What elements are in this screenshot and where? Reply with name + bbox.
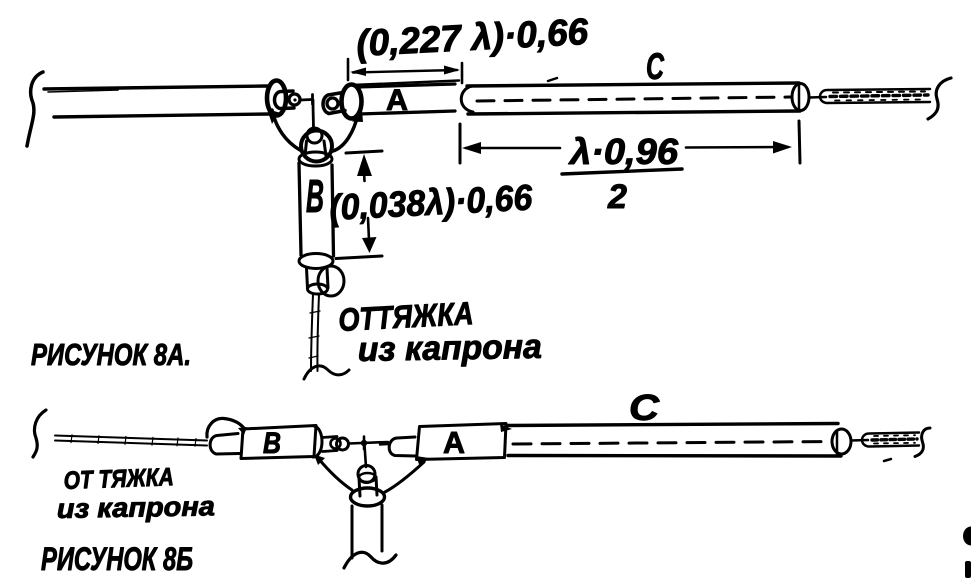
tube A bottom line (8A) [359,111,455,114]
dimension (0,227λ) left tick [347,59,350,80]
wire: left tube top line (8A) [44,86,267,89]
tube C left cap (8A) [461,86,473,112]
small cylinder after B [322,437,337,452]
insulator left thimble ring [289,94,300,105]
insulator right thimble ring [327,98,338,109]
svg-text:РИСУНОК 8А.: РИСУНОК 8А. [31,337,191,372]
svg-text:2: 2 [607,178,627,216]
dimension λ·0,96/2 left tick [459,124,462,163]
svg-text:A: A [386,84,408,117]
tube B bottom fitting [307,268,329,288]
wire: left tube overdraw dashes [48,87,230,93]
rope break hook (8A) [928,78,951,119]
mast left side (8B) [351,506,354,558]
dimension (0,038λ) bottom tick [336,256,382,259]
svg-text:λ·0,96: λ·0,96 [568,131,679,172]
right ferrule before A (8B) [380,443,389,446]
rope end whipping (8B) [862,433,919,447]
tube C bottom line (8A) [468,111,800,114]
tube C dashed centerline (8A) [477,97,790,101]
sling left dart [267,109,279,124]
tube B right cap bulge [313,426,322,457]
dimension down arrow [368,218,369,240]
svg-text:C: C [629,387,660,428]
sling right side [333,114,358,151]
eye ring (8B center-left) [337,438,349,450]
guy wire thin double line (8B) [55,436,207,446]
cut-off ink blob right edge 2 [965,561,971,578]
rope end whipping (8A) [820,89,930,103]
guy wire break squiggle (8A) [304,366,349,379]
dimension right arrow [686,146,788,149]
dimension (0,038λ) top tick [346,151,382,153]
link wire between eyes [300,98,312,101]
tube A bottom-left dart [416,456,429,467]
sling right line (8B) [385,462,424,492]
dart at A/C joint top [500,424,512,432]
dimension up arrow [357,154,372,176]
mast right side (8B) [381,505,384,551]
tube B top eyelet [307,128,322,143]
sling right dart [352,110,363,122]
tube C right end cap (8B) [832,429,851,454]
tube B left ferrule (8B) [210,434,240,455]
wire: link to rope (8A) [809,96,826,99]
mast break squiggle (8B) [344,552,396,568]
tube C right end cap (8A) [792,84,809,111]
hook loop over tube B end (8B) [207,418,245,437]
wire: vertical drop to ring [312,100,315,131]
tube B right side [332,165,334,256]
wire break symbol left (8A) [27,72,43,146]
svg-text:ОТ ТЯЖКА: ОТ ТЯЖКА [63,463,174,495]
dimension λ·0,96/2 right tick [799,121,800,163]
tube A top line (8A) [357,84,455,87]
tube B left side [299,163,301,255]
dimension left arrow [466,147,560,150]
insulator right eye loop (8A) [342,85,362,119]
tube B bottom cap [299,254,333,269]
tube A body (8B) [417,424,507,460]
svg-text:B: B [263,427,281,460]
wire: left tube bottom line (8A) [54,114,270,117]
stray dash below rope (8B) [884,459,891,461]
tube C top line (8B) [506,424,838,426]
node: center junction (8B) [363,437,366,450]
tube B top cap [299,152,332,166]
node: center junction tick [311,95,314,105]
insulator left thimble cylinder [275,91,295,109]
svg-text:A: A [443,425,465,460]
rope break hook (8B) [915,428,930,457]
wire link to rope (8B) [851,439,868,442]
sling left line (8B) [318,458,352,490]
stray mark above tube C [548,78,557,81]
fraction bar [562,169,682,174]
mast collar (8B) [351,488,385,506]
mast fitting cylinder (8B) [359,477,377,496]
mast eyelet ring (8B) [358,466,375,483]
tube C dashed centerline (8B) [513,442,830,445]
wire: vertical drop (8B) [365,445,367,467]
dimension (0,227λ) arrow line [353,70,457,73]
svg-text:C: C [646,46,665,87]
insulator right thimble cylinder [323,93,345,114]
sling left side [272,110,300,150]
tube B body (8B) [241,426,316,459]
tube B neck [305,141,326,156]
tube B bottom ring [318,266,344,296]
svg-text:из капрона: из капрона [57,491,215,524]
dimension (0,227λ) lower line [352,81,459,86]
cut-off ink blob right edge 1 [963,527,971,546]
link wire (8B) [349,442,388,444]
svg-text:РИСУНОК 8Б: РИСУНОК 8Б [41,541,193,577]
svg-text:B: B [306,170,324,222]
dimension (0,227λ) right tick [461,63,464,83]
sling bottom ring [301,131,332,162]
tube C bottom line (8B) [508,454,841,458]
tube C top line (8A) [467,83,799,86]
guy wire (8A) [311,294,313,371]
wire break symbol left (8B) [33,410,46,457]
insulator left eye loop (8A) [267,81,286,116]
svg-text:из капрона: из капрона [357,328,542,369]
tube B top-left dart [238,427,247,435]
